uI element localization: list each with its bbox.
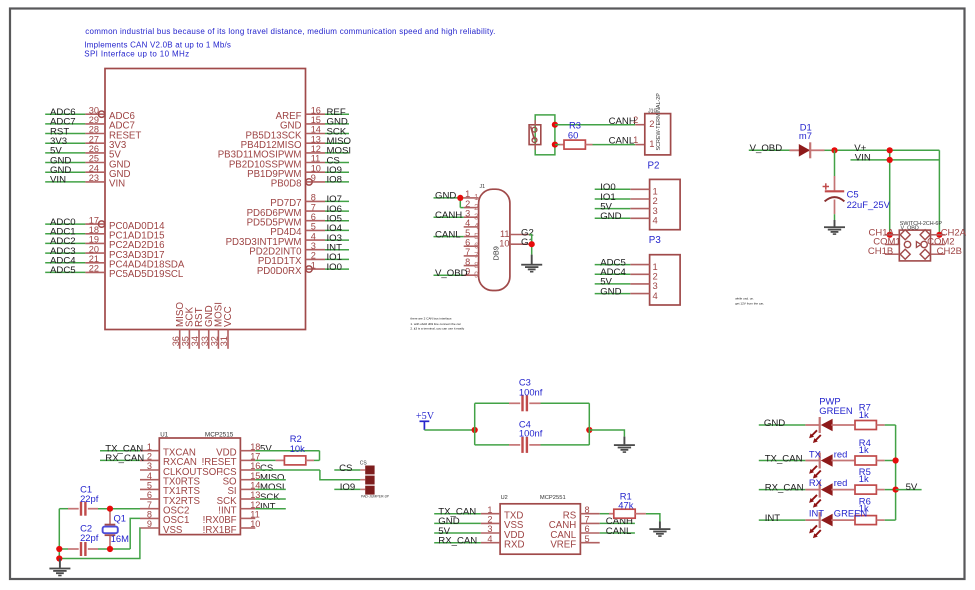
svg-text:RXD: RXD: [504, 540, 524, 551]
svg-text:!RX1BF: !RX1BF: [203, 525, 237, 536]
svg-text:2: 2: [487, 515, 492, 525]
svg-text:PD0D0RX: PD0D0RX: [257, 266, 302, 277]
svg-text:IO0: IO0: [327, 262, 342, 273]
svg-text:IO8: IO8: [327, 175, 342, 186]
svg-text:23: 23: [89, 173, 99, 183]
svg-text:47k: 47k: [618, 500, 633, 511]
svg-text:IO9: IO9: [340, 482, 355, 493]
svg-text:MCP2551: MCP2551: [540, 495, 566, 501]
svg-text:INT: INT: [765, 513, 781, 524]
svg-text:SCREW-TERMINAL-2P: SCREW-TERMINAL-2P: [656, 93, 662, 151]
svg-text:8: 8: [147, 510, 152, 520]
svg-text:4: 4: [653, 215, 658, 226]
svg-text:7: 7: [474, 251, 479, 260]
svg-text:4: 4: [474, 222, 479, 231]
svg-text:35: 35: [181, 336, 191, 346]
svg-text:4: 4: [311, 231, 316, 241]
svg-text:CS: CS: [360, 460, 368, 466]
svg-text:29: 29: [89, 115, 99, 125]
svg-text:4: 4: [147, 471, 152, 481]
svg-text:2: 2: [147, 452, 152, 462]
svg-text:1. with obd2 db9 line connect: 1. with obd2 db9 line connect the car: [410, 322, 460, 326]
svg-text:1k: 1k: [859, 444, 869, 455]
svg-text:ADC5: ADC5: [50, 265, 76, 276]
svg-text:GND: GND: [764, 418, 785, 429]
svg-text:1k: 1k: [859, 473, 869, 484]
svg-text:V_OBD: V_OBD: [435, 268, 468, 279]
svg-text:2: 2: [474, 203, 479, 212]
svg-text:2: 2: [649, 118, 654, 129]
svg-text:J1: J1: [480, 184, 486, 190]
svg-text:PB0D8: PB0D8: [271, 179, 302, 190]
svg-text:6: 6: [465, 237, 470, 247]
svg-text:VREF: VREF: [550, 540, 576, 551]
svg-text:16M: 16M: [111, 533, 129, 544]
svg-text:1: 1: [474, 193, 479, 202]
svg-text:22: 22: [89, 264, 99, 274]
svg-text:TX_CAN: TX_CAN: [765, 453, 803, 464]
svg-text:3: 3: [147, 461, 152, 471]
svg-text:21: 21: [89, 254, 99, 264]
svg-text:6: 6: [311, 212, 316, 222]
svg-text:24: 24: [89, 163, 99, 173]
svg-text:P3: P3: [649, 235, 662, 246]
svg-text:1: 1: [465, 189, 470, 199]
svg-text:9: 9: [147, 519, 152, 529]
svg-text:5: 5: [465, 228, 470, 238]
svg-text:32: 32: [210, 336, 220, 346]
svg-text:18: 18: [89, 225, 99, 235]
svg-text:8: 8: [311, 193, 316, 203]
svg-text:Implements CAN V2.0B at up to: Implements CAN V2.0B at up to 1 Mb/s: [84, 41, 231, 50]
svg-text:5: 5: [311, 222, 316, 232]
svg-text:5: 5: [474, 232, 479, 241]
svg-text:VIN: VIN: [50, 175, 66, 186]
svg-text:11: 11: [311, 154, 321, 164]
svg-text:1: 1: [487, 505, 492, 515]
svg-text:while osd. on.: while osd. on.: [735, 297, 754, 301]
svg-text:6: 6: [474, 241, 479, 250]
svg-text:1: 1: [649, 138, 654, 149]
svg-text:GND: GND: [600, 286, 621, 297]
svg-text:CANH: CANH: [435, 210, 462, 221]
svg-text:INT: INT: [809, 508, 824, 519]
svg-text:CANL: CANL: [606, 526, 632, 537]
svg-text:28: 28: [89, 125, 99, 135]
svg-text:5V: 5V: [260, 444, 272, 455]
svg-text:13: 13: [311, 134, 321, 144]
svg-text:2. jt3 is a terminal, you can: 2. jt3 is a terminal, you can use it eas…: [410, 327, 464, 331]
svg-text:P2: P2: [648, 160, 660, 171]
svg-text:8: 8: [465, 257, 470, 267]
svg-text:2: 2: [311, 251, 316, 261]
svg-text:11: 11: [500, 229, 510, 239]
svg-text:RX_CAN: RX_CAN: [105, 453, 144, 464]
svg-text:V_OBD: V_OBD: [901, 226, 919, 232]
svg-text:22uF_25V: 22uF_25V: [847, 199, 891, 210]
svg-text:TX: TX: [809, 448, 822, 459]
svg-text:common industrial bus because: common industrial bus because of its lon…: [85, 27, 495, 36]
svg-text:red: red: [834, 448, 848, 459]
svg-text:get 12V from the car,: get 12V from the car,: [735, 302, 764, 306]
svg-text:2: 2: [465, 199, 470, 209]
svg-text:7: 7: [465, 247, 470, 257]
svg-text:22pf: 22pf: [80, 532, 99, 543]
svg-text:11: 11: [250, 510, 260, 520]
svg-text:31: 31: [219, 336, 229, 346]
svg-text:MCP2515: MCP2515: [205, 431, 234, 438]
svg-text:14: 14: [311, 125, 321, 135]
svg-text:CANH: CANH: [609, 116, 636, 127]
svg-text:7: 7: [585, 515, 590, 525]
svg-text:16: 16: [311, 105, 321, 115]
svg-text:17: 17: [89, 215, 99, 225]
svg-text:1k: 1k: [859, 409, 869, 420]
svg-text:3: 3: [311, 241, 316, 251]
svg-text:3: 3: [465, 208, 470, 218]
svg-text:CH2B: CH2B: [937, 246, 962, 257]
svg-text:10k: 10k: [290, 443, 305, 454]
svg-text:3: 3: [487, 524, 492, 534]
svg-text:m7: m7: [799, 130, 812, 141]
svg-text:GREEN: GREEN: [834, 508, 867, 519]
svg-text:SPI Interface up to 10 MHz: SPI Interface up to 10 MHz: [84, 50, 189, 59]
svg-text:Q1: Q1: [114, 513, 127, 524]
svg-text:60: 60: [568, 130, 578, 141]
svg-text:VIN: VIN: [855, 152, 871, 163]
svg-text:12: 12: [311, 144, 321, 154]
svg-text:VCC: VCC: [223, 306, 234, 327]
svg-text:VSS: VSS: [163, 525, 183, 536]
svg-text:GND: GND: [600, 211, 621, 222]
svg-text:GND: GND: [435, 191, 456, 202]
svg-text:5V: 5V: [906, 482, 918, 493]
svg-text:red: red: [834, 477, 848, 488]
svg-text:CANL: CANL: [609, 136, 635, 147]
svg-text:6: 6: [585, 524, 590, 534]
svg-text:4: 4: [487, 534, 492, 544]
svg-text:PAD-JUMPER-3P: PAD-JUMPER-3P: [361, 495, 390, 499]
svg-text:19: 19: [89, 235, 99, 245]
svg-text:there are 2 CAN bus interface:: there are 2 CAN bus interface:: [410, 317, 452, 321]
svg-text:V_OBD: V_OBD: [750, 143, 783, 154]
svg-text:33: 33: [200, 336, 210, 346]
svg-text:U1: U1: [160, 431, 168, 438]
svg-text:10: 10: [311, 163, 321, 173]
svg-text:2: 2: [633, 115, 638, 125]
svg-text:1: 1: [633, 135, 638, 145]
svg-text:GREEN: GREEN: [819, 405, 852, 416]
svg-text:22pf: 22pf: [80, 493, 99, 504]
svg-text:7: 7: [311, 202, 316, 212]
svg-text:15: 15: [311, 115, 321, 125]
svg-text:RX: RX: [809, 477, 823, 488]
svg-text:30: 30: [89, 105, 99, 115]
svg-text:34: 34: [190, 336, 200, 346]
svg-text:4: 4: [653, 290, 658, 301]
svg-text:10: 10: [499, 239, 509, 249]
svg-text:26: 26: [89, 144, 99, 154]
svg-text:36: 36: [171, 336, 181, 346]
svg-text:CS: CS: [339, 463, 352, 474]
svg-text:VIN: VIN: [109, 179, 125, 190]
svg-text:3: 3: [474, 212, 479, 221]
svg-text:100nf: 100nf: [519, 428, 543, 439]
svg-text:7: 7: [147, 500, 152, 510]
svg-text:10: 10: [250, 519, 260, 529]
svg-text:100nf: 100nf: [519, 386, 543, 397]
svg-text:27: 27: [89, 134, 99, 144]
svg-text:INT: INT: [260, 502, 276, 513]
svg-text:RX_CAN: RX_CAN: [765, 482, 804, 493]
svg-text:U2: U2: [501, 495, 508, 501]
svg-text:9: 9: [474, 270, 479, 279]
svg-text:20: 20: [89, 244, 99, 254]
svg-text:CH1B: CH1B: [868, 246, 893, 257]
svg-text:8: 8: [474, 261, 479, 270]
svg-text:6: 6: [147, 490, 152, 500]
svg-text:25: 25: [89, 154, 99, 164]
svg-text:PC5AD5D19SCL: PC5AD5D19SCL: [109, 269, 184, 280]
svg-text:CANL: CANL: [435, 229, 461, 240]
svg-text:8: 8: [585, 505, 590, 515]
svg-text:4: 4: [465, 218, 470, 228]
svg-text:5: 5: [585, 534, 590, 544]
svg-text:1: 1: [147, 442, 152, 452]
svg-text:RX_CAN: RX_CAN: [438, 536, 477, 547]
svg-text:5: 5: [147, 481, 152, 491]
